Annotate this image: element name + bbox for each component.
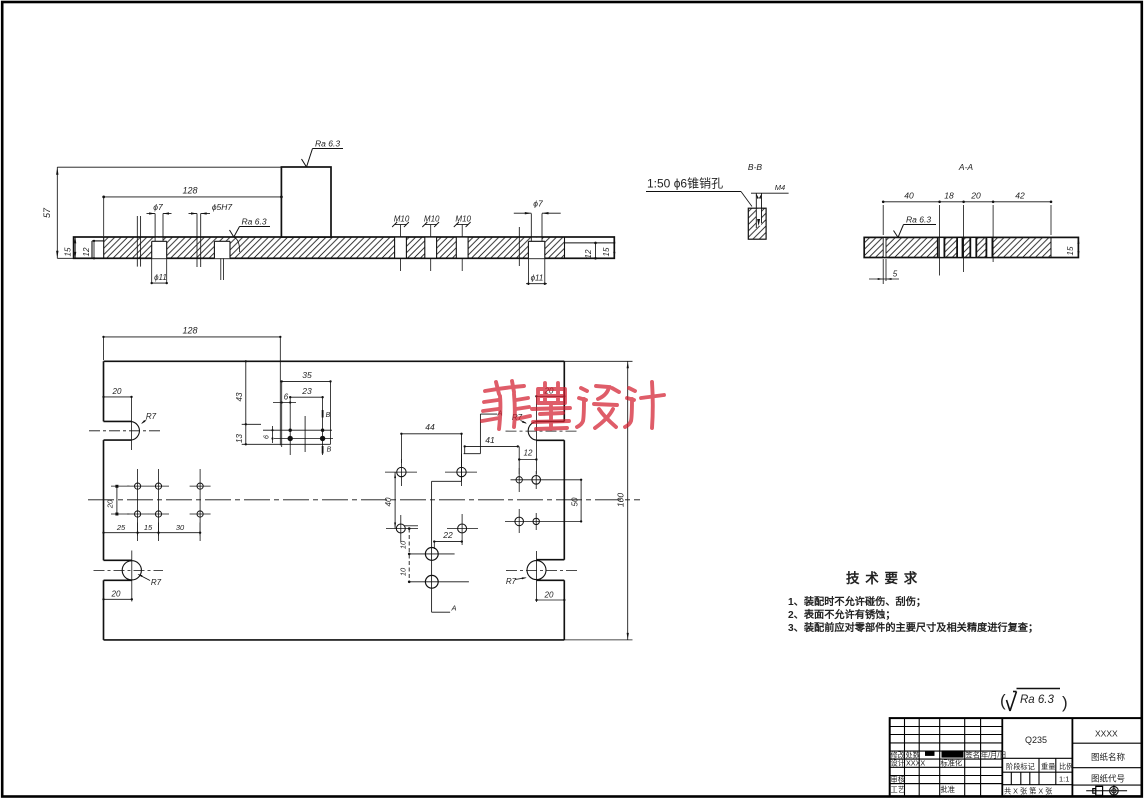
svg-text:100: 100 [616,493,626,507]
svg-text:图纸名称: 图纸名称 [1091,752,1126,762]
svg-text:B-B: B-B [748,162,763,172]
dim 15 left end [64,237,77,258]
svg-text:R7: R7 [146,412,157,421]
dim 20 bottom-left notch [102,551,133,602]
svg-text:M10: M10 [455,215,471,224]
A-A dim 5 [869,259,899,284]
svg-text:42: 42 [1015,191,1025,201]
dim 41 [464,435,520,454]
svg-text:(: ( [1000,691,1006,710]
svg-text:ϕ11: ϕ11 [154,273,167,282]
dim phi5H7 [189,202,233,215]
svg-text:Ra 6.3: Ra 6.3 [315,139,340,149]
dim phi7 left [147,202,172,215]
svg-text:128: 128 [182,186,197,196]
svg-text:Ra 6.3: Ra 6.3 [242,217,267,227]
dim 128 plan view [102,326,281,446]
svg-text:22: 22 [442,530,453,540]
dim 100 plan view [564,361,632,640]
svg-text:ϕ5H7: ϕ5H7 [212,202,233,212]
svg-text:M4: M4 [775,183,785,192]
small pin hole lines left [137,216,140,267]
hole column at x=158.5 [148,469,169,541]
right end step of bar [565,242,615,244]
bottom-right slot R7 [506,560,578,581]
lower mid holes medium pair [386,515,418,542]
svg-text:20: 20 [112,387,122,396]
svg-text:44: 44 [425,422,435,432]
title block middle texts [1004,735,1073,796]
svg-text:15: 15 [602,247,611,256]
svg-text:10: 10 [399,540,408,549]
R7 label top-left [141,412,157,424]
svg-text:15: 15 [1066,246,1075,255]
svg-text:12: 12 [524,449,533,458]
B-B block section [748,208,766,239]
dim 22 [433,530,463,549]
front view: sectioned base bar [74,237,615,258]
svg-text:共 X 张 第 X 张: 共 X 张 第 X 张 [1004,787,1052,796]
svg-text:1:50 ϕ6锥销孔: 1:50 ϕ6锥销孔 [647,177,723,191]
slot 5 wide in A-A [883,237,886,257]
M4 leader [751,183,789,199]
pin hole line right [518,227,520,266]
svg-text:A: A [451,604,457,613]
svg-text:5: 5 [893,270,898,279]
svg-text:B: B [326,412,331,419]
counterbore hole phi7/phi11 right [528,214,544,286]
svg-text:ϕ7: ϕ7 [153,202,163,212]
bottom-left slot R7 [94,560,164,580]
title block texts [891,750,1007,793]
dim 20 bottom-right notch [535,551,565,602]
svg-text:ϕ11: ϕ11 [531,274,544,283]
svg-text:2、表面不允许有锈蚀；: 2、表面不允许有锈蚀； [788,608,896,621]
svg-text:18: 18 [944,191,954,201]
main horizontal centerline [88,499,640,501]
svg-text:设计: 设计 [891,759,905,768]
hole column at x=137.6 [127,469,148,541]
svg-text:图纸代号: 图纸代号 [1091,774,1125,784]
left end step of bar [92,241,104,258]
dim phi11 right [526,274,547,285]
dim 57 vertical [42,167,281,258]
roughness symbol Ra6.3 on bar top [230,217,271,253]
svg-text:35: 35 [302,370,312,380]
dim 20 top-right notch [535,387,565,475]
note 1:50 taper pin hole [646,177,752,207]
right pair lower: medium + small [515,509,524,533]
svg-text:20: 20 [106,499,115,509]
dim 15 right end [602,237,615,258]
svg-text:6: 6 [284,393,289,402]
svg-text:3、装配前应对零部件的主要尺寸及相关精度进行复查；: 3、装配前应对零部件的主要尺寸及相关精度进行复查； [788,621,1038,634]
svg-text:Ra 6.3: Ra 6.3 [1020,694,1054,706]
svg-text:审核: 审核 [891,775,905,784]
svg-text:50: 50 [571,497,580,506]
A-A bar [864,237,1078,257]
svg-text:M10: M10 [424,215,440,224]
svg-text:技 术 要 求: 技 术 要 求 [846,570,918,586]
A-A roughness Ra6.3 [894,215,937,238]
svg-text:25: 25 [116,523,126,532]
big holes on section path [409,548,455,561]
upper mid holes 2x medium [385,459,417,486]
dim 12 cluster [518,446,538,474]
title block roughness note (Ra 6.3) [1000,689,1068,713]
svg-text:12: 12 [82,247,91,256]
svg-text:23: 23 [301,386,312,396]
first angle projection symbol [1086,785,1127,796]
B-B pin feature dim 6 [273,393,296,404]
svg-text:工艺: 工艺 [891,785,905,794]
top-left slot R7 [89,421,163,440]
B-B pin feature dim 35 [281,370,332,447]
A-A top dims 40 18 20 42 [882,191,1052,276]
svg-text:128: 128 [182,326,197,336]
B-B pin holes (4 dots) [263,416,333,452]
A-A dim 15 [1066,237,1080,257]
R7 label bottom-left [138,574,162,587]
svg-text:41: 41 [485,435,495,445]
svg-text:10: 10 [399,567,408,576]
counterbore below phi5H7 [214,241,230,280]
svg-text:签名: 签名 [966,751,980,760]
dims 10 10 chain [399,526,419,583]
svg-text:20: 20 [970,191,981,201]
dim 128 front view [102,186,283,237]
svg-text:XXXX: XXXX [1095,729,1118,739]
roughness symbol Ra6.3 on block top [302,139,344,168]
dowel hole phi5H7 [197,214,201,268]
svg-text:): ) [1062,693,1068,712]
dim 44 [400,422,463,463]
svg-text:20: 20 [544,591,554,600]
dim 20 vertical left group [106,485,130,516]
threaded hole M10 #2 [422,215,440,272]
svg-text:阶段标记: 阶段标记 [1006,762,1035,771]
dims 25 15 30 [102,523,201,536]
svg-text:R7: R7 [506,577,517,586]
svg-text:重量: 重量 [1041,762,1055,771]
svg-text:比例: 比例 [1059,762,1073,771]
right pair upper: small + medium [516,468,522,492]
section line A-A path [432,409,503,613]
svg-text:ϕ7: ϕ7 [533,199,543,209]
dim 50 right [571,479,583,523]
requirement items [788,595,1038,634]
title block right texts [1091,729,1126,784]
B-B pin feature dims 43/13 [235,360,331,445]
svg-text:1、装配时不允许碰伤、刮伤；: 1、装配时不允许碰伤、刮伤； [788,595,926,608]
svg-text:43: 43 [235,392,244,401]
svg-text:Q235: Q235 [1025,735,1047,745]
dim 20 top-left notch [102,387,132,450]
svg-text:57: 57 [42,207,52,218]
dim phi11 left [151,273,168,284]
svg-text:30: 30 [176,523,185,532]
B-B pin feature dim 23 [289,386,324,455]
A-A groove slot #2 [957,237,962,257]
svg-text:40: 40 [904,191,914,201]
svg-text:12: 12 [584,249,593,258]
svg-text:15: 15 [64,247,73,256]
A-A groove slot #4 [986,237,992,257]
svg-text:B: B [327,447,332,454]
dim 12 left end [82,240,95,260]
raised block on bar [281,167,331,237]
taper pin hole in B-B block [756,193,761,228]
svg-text:1:1: 1:1 [1059,775,1069,784]
watermark 菲墨设计 (hand-drawn strokes) [482,381,664,429]
A-A groove slot #1 [938,237,945,257]
svg-text:Ra 6.3: Ra 6.3 [906,215,931,225]
counterbore hole phi7/phi11 left [152,214,167,285]
title block grid [890,718,1142,796]
R7 label top-right [512,413,527,424]
svg-text:R7: R7 [151,578,162,587]
section B markers [323,410,332,454]
threaded hole M10 #1 [392,215,410,272]
svg-text:XXXX: XXXX [906,759,925,768]
top-right slot R7 [506,421,579,440]
svg-text:13: 13 [235,434,244,443]
svg-text:A-A: A-A [958,162,974,172]
svg-text:年/月/日: 年/月/日 [981,751,1007,760]
A-A groove slot #3 [970,237,976,257]
plan view outline of base plate [104,361,565,640]
dim 40 left of cluster [384,472,396,528]
hole column at x=200.1 [190,469,211,541]
dim 12 right end [584,242,597,260]
dim phi7 right [514,199,561,215]
svg-text:20: 20 [111,590,121,599]
R7 label bottom-right [506,577,527,586]
svg-text:M10: M10 [394,215,410,224]
svg-text:标准化: 标准化 [941,759,963,768]
threaded hole M10 #3 [454,215,472,272]
svg-text:6: 6 [264,435,271,439]
svg-text:15: 15 [144,523,153,532]
svg-text:40: 40 [384,497,393,506]
svg-text:批准: 批准 [941,785,955,794]
